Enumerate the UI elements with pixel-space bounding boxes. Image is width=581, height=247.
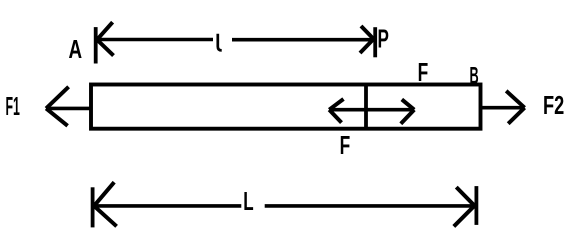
arrowhead at right end of L (pointing right)	[454, 187, 475, 226]
section line at P inside bar	[364, 85, 368, 129]
svg-text:A: A	[69, 34, 83, 64]
arrowhead at left end of L (pointing left)	[94, 182, 117, 226]
internal force F double arrow shaft	[329, 108, 414, 112]
tick at A	[94, 27, 98, 63]
svg-text:B: B	[470, 63, 479, 90]
bar AB rectangle	[91, 85, 481, 129]
dimension line l (A to P), left segment	[97, 38, 214, 42]
force F1 arrowhead	[46, 87, 69, 126]
tick at left end of L	[91, 187, 95, 227]
force F2 arrowhead	[506, 91, 524, 124]
label l (length between A and P)	[218, 34, 222, 51]
svg-text:F1: F1	[6, 91, 20, 121]
dimension line L, right segment	[265, 204, 475, 208]
force F1 arrow shaft	[46, 107, 91, 111]
svg-text:F: F	[418, 57, 429, 87]
arrowhead at P (pointing right)	[360, 26, 374, 53]
arrowhead at A (pointing left)	[97, 22, 114, 55]
dimension line L, left segment	[94, 204, 241, 208]
internal arrowhead left	[329, 99, 343, 123]
tick at P	[373, 27, 377, 57]
svg-text:L: L	[243, 186, 253, 216]
svg-text:F2: F2	[543, 90, 564, 120]
tick at right end of L	[474, 186, 478, 225]
force F2 arrow shaft	[481, 106, 525, 110]
internal arrowhead right	[401, 99, 414, 123]
svg-text:P: P	[378, 23, 389, 53]
svg-text:F: F	[340, 130, 351, 160]
dimension line l, right segment	[232, 38, 375, 42]
